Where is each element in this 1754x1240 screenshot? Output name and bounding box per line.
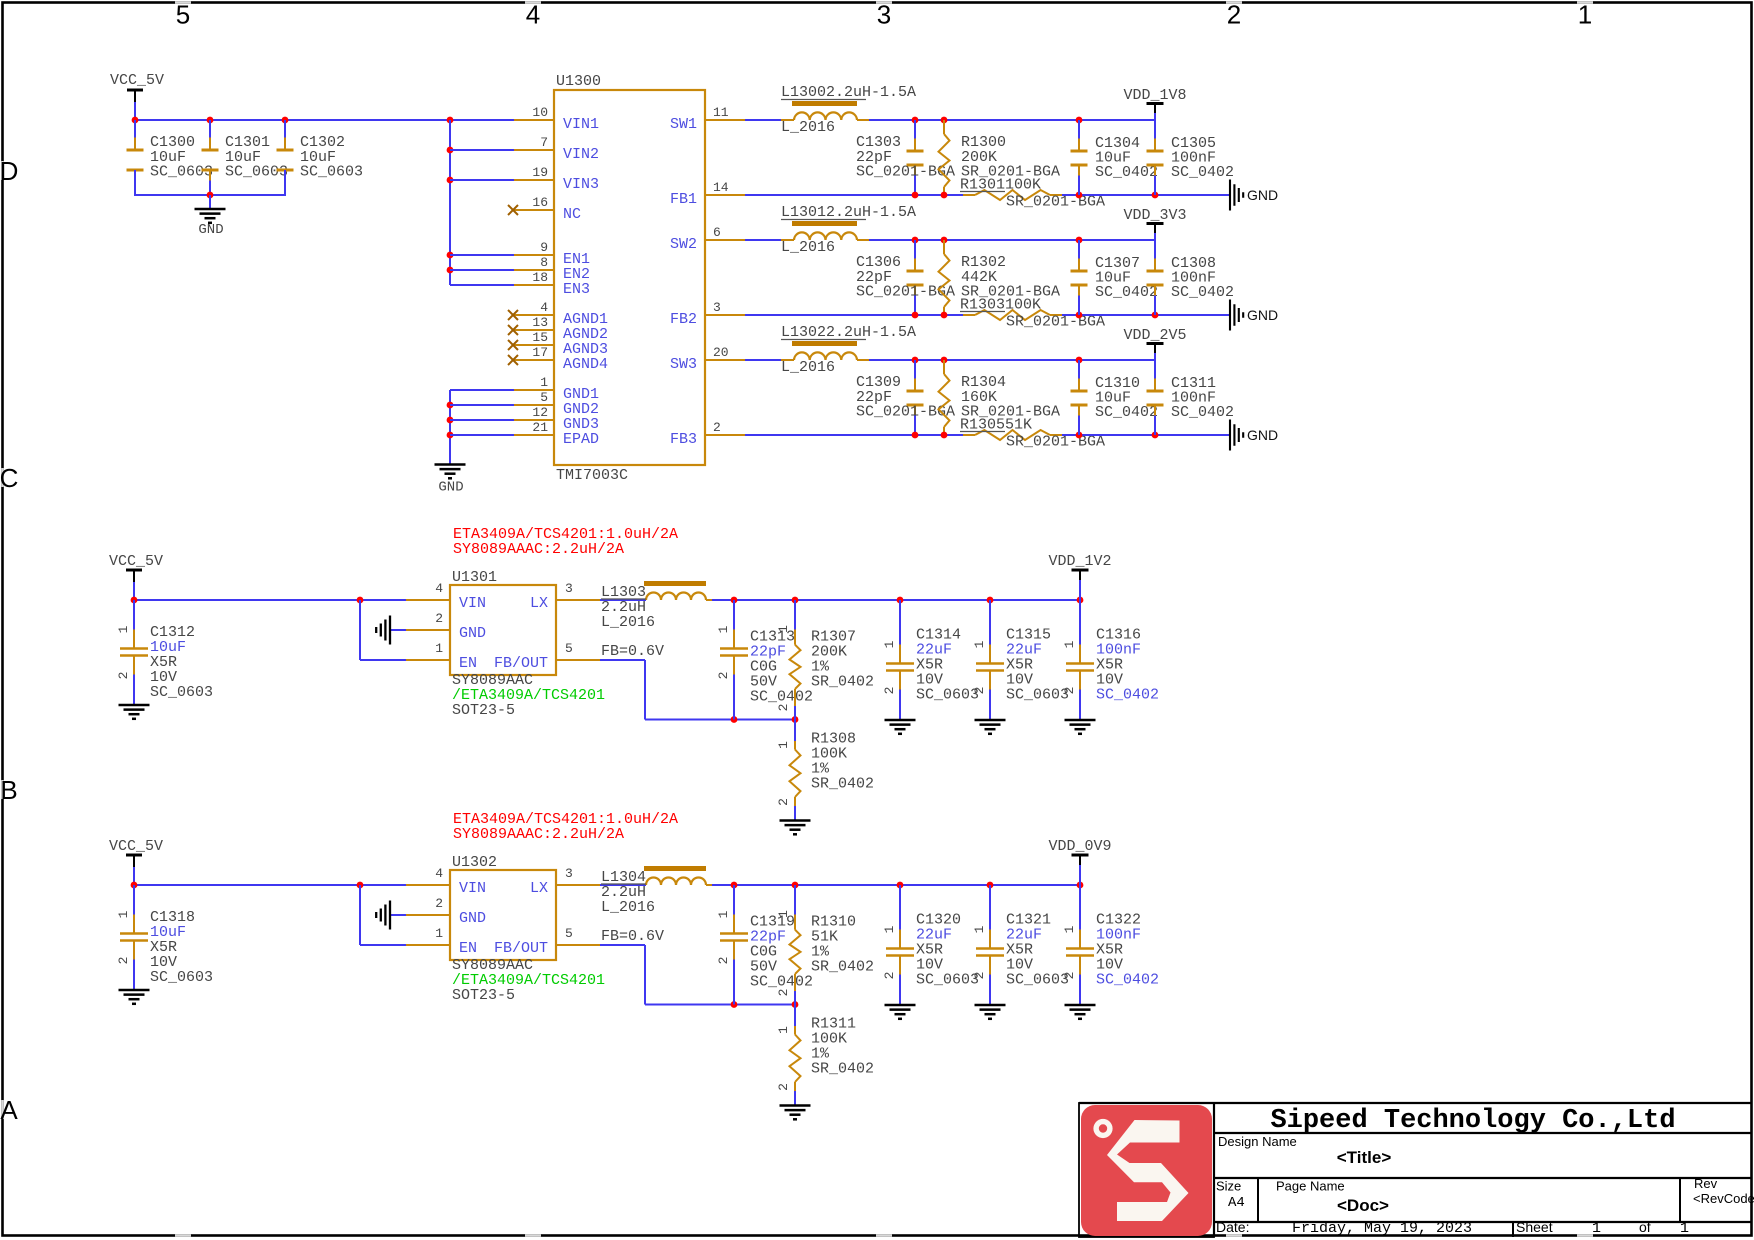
capacitor C1306 22pF SC_0201-BGA (914, 240, 916, 259)
pin 2 GND of U1302 (406, 914, 450, 916)
capacitor C1311 100nF SC_0402 (1154, 360, 1156, 379)
svg-text:VIN1: VIN1 (563, 116, 599, 133)
pin 17 AGND4 of U1300 (514, 359, 554, 361)
capacitor C1316 100nF X5R 10V SC_0402 (1079, 600, 1081, 645)
svg-text:3: 3 (565, 866, 573, 881)
wire VIN3 (450, 179, 514, 181)
node junction at C1302 (282, 117, 289, 124)
title block table lines (1213, 1103, 1215, 1237)
svg-text:SR_0402: SR_0402 (811, 776, 874, 793)
svg-text:VCC_5V: VCC_5V (109, 838, 163, 855)
resistor R1307 200K 1% SR_0402 (794, 600, 796, 630)
svg-text:<Title>: <Title> (1337, 1148, 1392, 1167)
wire EN branch (359, 600, 361, 660)
svg-text:FB1: FB1 (670, 191, 697, 208)
wire EPAD (450, 434, 514, 436)
svg-text:VDD_1V8: VDD_1V8 (1123, 87, 1186, 104)
inductor L1304 2.2uH L_2016 (600, 884, 646, 886)
svg-text:11: 11 (713, 105, 729, 120)
svg-text:SOT23-5: SOT23-5 (452, 702, 515, 719)
capacitor C1313 22pF C0G 50V SC_0402 (733, 600, 735, 630)
svg-text:A4: A4 (1228, 1195, 1245, 1211)
svg-text:2: 2 (435, 611, 443, 626)
pin 19 VIN3 of U1300 (514, 179, 554, 181)
capacitor C1320 22uF X5R 10V SC_0603 (899, 885, 901, 930)
svg-text:1: 1 (716, 625, 731, 633)
svg-text:SC_0402: SC_0402 (1095, 164, 1158, 181)
pin 9 EN1 of U1300 (514, 254, 554, 256)
svg-text:1: 1 (972, 640, 987, 648)
svg-text:VIN2: VIN2 (563, 146, 599, 163)
svg-text:FB/OUT: FB/OUT (494, 655, 548, 672)
wire SW output VDD_3V3 rail (869, 239, 1155, 241)
svg-text:2: 2 (776, 704, 791, 712)
svg-text:GND: GND (1247, 427, 1278, 443)
svg-text:1: 1 (1680, 1220, 1689, 1237)
svg-text:SC_0603: SC_0603 (916, 972, 979, 989)
Sipeed logo red tile (1081, 1105, 1212, 1236)
wire EN branch (359, 885, 361, 945)
svg-text:SC_0402: SC_0402 (750, 974, 813, 991)
inductor L1300 2.2uH-1.5A L_2016 (745, 119, 794, 121)
pin 3 LX of U1301 (556, 599, 600, 601)
wire FB feedback VDD_1V8 (745, 194, 963, 196)
Sipeed logo tag hole (1093, 1119, 1112, 1138)
svg-text:1: 1 (882, 925, 897, 933)
wire FB to ground rail (1062, 314, 1230, 316)
junction at C1318 (131, 882, 138, 889)
svg-text:SC_0603: SC_0603 (916, 687, 979, 704)
ground GND (C1316) (1065, 719, 1096, 722)
capacitor C1318 10uF X5R SC_0603 (133, 885, 135, 915)
title block top line (1079, 1102, 1752, 1104)
svg-text:1: 1 (776, 1026, 791, 1034)
svg-text:SY8089AAAC:2.2uH/2A: SY8089AAAC:2.2uH/2A (453, 541, 624, 558)
node junction at VIN bus (447, 117, 454, 124)
wire FB to ground rail (1062, 194, 1230, 196)
svg-text:VDD_3V3: VDD_3V3 (1123, 207, 1186, 224)
Sipeed logo S glyph (1107, 1120, 1189, 1221)
svg-text:SR_0201-BGA: SR_0201-BGA (1006, 194, 1105, 211)
node junction at C1301 (207, 117, 214, 124)
capacitor C1319 22pF C0G 50V SC_0402 (733, 885, 735, 915)
junction VIN3 (447, 177, 454, 184)
wire FB net (600, 944, 645, 946)
junction GND2 (447, 402, 454, 409)
capacitor C1307 10uF SC_0402 (1078, 240, 1080, 259)
capacitor C1310 10uF SC_0402 (1078, 360, 1080, 379)
svg-text:1: 1 (716, 910, 731, 918)
svg-text:L13022.2uH-1.5A: L13022.2uH-1.5A (781, 324, 916, 341)
svg-text:SC_0603: SC_0603 (1006, 687, 1069, 704)
svg-text:15: 15 (532, 330, 548, 345)
pin 15 AGND3 of U1300 (514, 344, 554, 346)
pin 5 GND2 of U1300 (514, 404, 554, 406)
ground GND (channel output) (1229, 420, 1231, 451)
capacitor C1322 100nF X5R 10V SC_0402 (1079, 885, 1081, 930)
svg-text:8: 8 (540, 255, 548, 270)
wire VIN bus vertical (449, 120, 451, 285)
junction at GND rail (207, 192, 214, 199)
capacitor C1321 22uF X5R 10V SC_0603 (989, 885, 991, 930)
wire FB feedback VDD_2V5 (745, 434, 963, 436)
pin 2 FB3 of U1300 (705, 434, 745, 436)
capacitor C1303 22pF SC_0201-BGA (914, 120, 916, 139)
wire LX output VDD_1V2 rail (712, 599, 1080, 601)
resistor R1311 100K 1% SR_0402 (794, 1005, 796, 1027)
svg-text:GND: GND (438, 480, 463, 496)
svg-text:LX: LX (530, 880, 548, 897)
svg-text:of: of (1639, 1219, 1651, 1235)
svg-text:1: 1 (1592, 1220, 1601, 1237)
ground GND (C1312) (119, 704, 150, 707)
svg-text:2: 2 (435, 896, 443, 911)
ground GND (channel output) (1229, 300, 1231, 331)
capacitor C1312 10uF X5R SC_0603 (133, 600, 135, 630)
svg-text:SOT23-5: SOT23-5 (452, 987, 515, 1004)
svg-text:Date:: Date: (1216, 1219, 1249, 1235)
svg-text:EN: EN (459, 655, 477, 672)
svg-text:5: 5 (540, 390, 548, 405)
svg-text:14: 14 (713, 180, 729, 195)
svg-text:L13012.2uH-1.5A: L13012.2uH-1.5A (781, 204, 916, 221)
svg-text:SC_0402: SC_0402 (1095, 404, 1158, 421)
capacitor C1300 10uF SC_0603 (134, 120, 136, 138)
svg-text:SC_0603: SC_0603 (150, 969, 213, 986)
svg-text:VDD_2V5: VDD_2V5 (1123, 327, 1186, 344)
svg-text:SW2: SW2 (670, 236, 697, 253)
wire GND3 (450, 419, 514, 421)
pin 4 VIN of U1302 (406, 884, 450, 886)
svg-text:LX: LX (530, 595, 548, 612)
svg-text:GND: GND (459, 910, 486, 927)
resistor R1302 442K SR_0201-BGA (943, 240, 945, 254)
svg-text:SC_0402: SC_0402 (750, 689, 813, 706)
svg-text:4: 4 (540, 300, 548, 315)
svg-text:3: 3 (565, 581, 573, 596)
svg-text:FB=0.6V: FB=0.6V (601, 643, 664, 660)
pin 8 EN2 of U1300 (514, 269, 554, 271)
pin 1 GND1 of U1300 (514, 389, 554, 391)
svg-text:SR_0201-BGA: SR_0201-BGA (1006, 434, 1105, 451)
svg-text:<Doc>: <Doc> (1337, 1196, 1389, 1215)
svg-text:L13002.2uH-1.5A: L13002.2uH-1.5A (781, 84, 916, 101)
svg-text:5: 5 (565, 641, 573, 656)
svg-text:L_2016: L_2016 (601, 899, 655, 916)
svg-text:2: 2 (713, 420, 721, 435)
svg-text:L_2016: L_2016 (601, 614, 655, 631)
svg-text:2: 2 (716, 957, 731, 965)
svg-text:2: 2 (1062, 687, 1077, 695)
svg-text:C: C (0, 463, 18, 493)
svg-text:EN: EN (459, 940, 477, 957)
junction VIN2 (447, 147, 454, 154)
svg-text:L_2016: L_2016 (781, 359, 835, 376)
svg-text:6: 6 (713, 225, 721, 240)
svg-text:1: 1 (1062, 640, 1077, 648)
pin 13 AGND2 of U1300 (514, 329, 554, 331)
svg-text:Size: Size (1216, 1179, 1241, 1194)
ground GND (C1318) (119, 989, 150, 992)
svg-text:1: 1 (435, 641, 443, 656)
junction VIN/EN branch (357, 597, 364, 604)
svg-text:1: 1 (540, 375, 548, 390)
wire ground rail under C1300-C1302 (135, 194, 285, 196)
svg-text:SC_0402: SC_0402 (1096, 972, 1159, 989)
svg-text:19: 19 (532, 165, 548, 180)
capacitor C1305 100nF SC_0402 (1154, 120, 1156, 139)
svg-text:SC_0603: SC_0603 (300, 164, 363, 181)
ground tap at GND pin of U1302 (390, 914, 406, 916)
resistor R1300 200K SR_0201-BGA (943, 120, 945, 134)
wire VCC_5V to VIN (134, 599, 406, 601)
resistor R1304 160K SR_0201-BGA (943, 360, 945, 374)
pin 2 GND of U1301 (406, 629, 450, 631)
svg-text:U1301: U1301 (452, 569, 497, 586)
svg-text:2: 2 (776, 798, 791, 806)
svg-text:U1300: U1300 (556, 73, 601, 90)
wire VCC_5V to VIN (134, 884, 406, 886)
svg-text:VCC_5V: VCC_5V (110, 72, 164, 89)
svg-text:SR_0201-BGA: SR_0201-BGA (1006, 314, 1105, 331)
capacitor C1308 100nF SC_0402 (1154, 240, 1156, 259)
svg-text:U1302: U1302 (452, 854, 497, 871)
pin 5 FB/OUT of U1301 (556, 659, 600, 661)
svg-text:GND: GND (1247, 307, 1278, 323)
inductor L1301 2.2uH-1.5A L_2016 (745, 239, 794, 241)
svg-text:VCC_5V: VCC_5V (109, 553, 163, 570)
pin 12 GND3 of U1300 (514, 419, 554, 421)
svg-text:SC_0603: SC_0603 (225, 164, 288, 181)
pin 4 AGND1 of U1300 (514, 314, 554, 316)
svg-text:1: 1 (882, 640, 897, 648)
svg-text:SW3: SW3 (670, 356, 697, 373)
svg-text:2: 2 (776, 989, 791, 997)
ground GND (R1311) (780, 1104, 811, 1107)
svg-text:FB2: FB2 (670, 311, 697, 328)
ground GND (U1300) (435, 463, 466, 466)
svg-text:<RevCode: <RevCode (1693, 1191, 1754, 1206)
capacitor C1304 10uF SC_0402 (1078, 120, 1080, 139)
svg-text:2: 2 (1227, 0, 1241, 30)
inductor L1303 2.2uH L_2016 (600, 599, 646, 601)
capacitor C1315 22uF X5R 10V SC_0603 (989, 600, 991, 645)
svg-text:1: 1 (776, 910, 791, 918)
svg-text:20: 20 (713, 345, 729, 360)
op-amp U1302 SY8089AAC body (450, 870, 556, 960)
ground GND (R1308) (780, 819, 811, 822)
resistor R1303100K SR_0201-BGA (feedback divider) (963, 314, 975, 316)
wire SW output VDD_1V8 rail (869, 119, 1155, 121)
svg-text:FB/OUT: FB/OUT (494, 940, 548, 957)
svg-text:SC_0402: SC_0402 (1095, 284, 1158, 301)
svg-text:21: 21 (532, 420, 548, 435)
svg-text:2: 2 (116, 957, 131, 965)
svg-text:4: 4 (526, 0, 540, 30)
svg-text:FB=0.6V: FB=0.6V (601, 928, 664, 945)
resistor R1308 100K 1% SR_0402 (794, 720, 796, 742)
ground tap at GND pin of U1301 (390, 629, 406, 631)
svg-text:3: 3 (877, 0, 891, 30)
svg-text:2: 2 (116, 672, 131, 680)
svg-text:Rev: Rev (1694, 1176, 1718, 1191)
svg-text:17: 17 (532, 345, 548, 360)
wire EN2 (450, 269, 514, 271)
node junction at C1300 (132, 117, 139, 124)
pin 21 EPAD of U1300 (514, 434, 554, 436)
svg-text:4: 4 (435, 581, 443, 596)
svg-text:4: 4 (435, 866, 443, 881)
svg-text:VDD_0V9: VDD_0V9 (1048, 838, 1111, 855)
svg-text:SC_0603: SC_0603 (1006, 972, 1069, 989)
wire LX output VDD_0V9 rail (712, 884, 1080, 886)
resistor R130551K SR_0201-BGA (feedback divider) (963, 434, 975, 436)
svg-text:SC_0402: SC_0402 (1171, 164, 1234, 181)
svg-text:SR_0402: SR_0402 (811, 959, 874, 976)
capacitor C1301 10uF SC_0603 (209, 120, 211, 138)
svg-text:1: 1 (116, 910, 131, 918)
junction GND3 (447, 417, 454, 424)
capacitor C1309 22pF SC_0201-BGA (914, 360, 916, 379)
svg-text:7: 7 (540, 135, 548, 150)
svg-text:VIN: VIN (459, 595, 486, 612)
wire VIN2 (450, 149, 514, 151)
svg-text:Page Name: Page Name (1276, 1179, 1345, 1194)
svg-text:1: 1 (116, 625, 131, 633)
junction EPAD (447, 432, 454, 439)
svg-text:2: 2 (882, 687, 897, 695)
inductor L1302 2.2uH-1.5A L_2016 (745, 359, 794, 361)
capacitor C1314 22uF X5R 10V SC_0603 (899, 600, 901, 645)
svg-text:VDD_1V2: VDD_1V2 (1048, 553, 1111, 570)
svg-text:VIN3: VIN3 (563, 176, 599, 193)
svg-text:Sipeed Technology Co.,Ltd: Sipeed Technology Co.,Ltd (1270, 1106, 1675, 1136)
pin 5 FB/OUT of U1302 (556, 944, 600, 946)
svg-text:2: 2 (972, 972, 987, 980)
pin 1 EN of U1302 (406, 944, 450, 946)
ground GND (C1315) (975, 719, 1006, 722)
svg-text:10: 10 (532, 105, 548, 120)
svg-text:GND: GND (198, 222, 223, 238)
svg-text:Sheet: Sheet (1516, 1219, 1553, 1235)
svg-text:5: 5 (565, 926, 573, 941)
svg-text:SC_0603: SC_0603 (150, 684, 213, 701)
svg-text:SC_0603: SC_0603 (150, 164, 213, 181)
svg-text:1: 1 (435, 926, 443, 941)
svg-text:B: B (0, 775, 17, 805)
wire SW output VDD_2V5 rail (869, 359, 1155, 361)
ground GND (C1314) (885, 719, 916, 722)
junction VIN/EN branch (357, 882, 364, 889)
svg-text:NC: NC (563, 206, 581, 223)
svg-text:SW1: SW1 (670, 116, 697, 133)
svg-text:EPAD: EPAD (563, 431, 599, 448)
pin 14 FB1 of U1300 (705, 194, 745, 196)
junction EN1 (447, 252, 454, 259)
svg-text:12: 12 (532, 405, 548, 420)
svg-text:1: 1 (1062, 925, 1077, 933)
ground GND (C1322) (1065, 1004, 1096, 1007)
svg-text:TMI7003C: TMI7003C (556, 467, 628, 484)
svg-text:A: A (0, 1095, 18, 1125)
svg-text:2: 2 (776, 1083, 791, 1091)
svg-text:1: 1 (776, 625, 791, 633)
svg-text:Friday, May 19, 2023: Friday, May 19, 2023 (1292, 1220, 1472, 1237)
svg-text:SC_0402: SC_0402 (1171, 284, 1234, 301)
svg-text:Design Name: Design Name (1218, 1134, 1297, 1149)
svg-text:SR_0402: SR_0402 (811, 1061, 874, 1078)
svg-text:16: 16 (532, 195, 548, 210)
svg-text:2: 2 (882, 972, 897, 980)
svg-text:2: 2 (972, 687, 987, 695)
svg-text:3: 3 (713, 300, 721, 315)
capacitor C1302 10uF SC_0603 (284, 120, 286, 138)
wire FB net (600, 659, 645, 661)
pin 16 NC of U1300 (514, 209, 554, 211)
svg-text:2: 2 (1062, 972, 1077, 980)
pin 7 VIN2 of U1300 (514, 149, 554, 151)
svg-text:18: 18 (532, 270, 548, 285)
svg-text:SC_0402: SC_0402 (1096, 687, 1159, 704)
pin 1 EN of U1301 (406, 659, 450, 661)
junction EN2 (447, 267, 454, 274)
pin 18 EN3 of U1300 (514, 284, 554, 286)
pin 4 VIN of U1301 (406, 599, 450, 601)
svg-text:VIN: VIN (459, 880, 486, 897)
pin 3 LX of U1302 (556, 884, 600, 886)
svg-text:1: 1 (972, 925, 987, 933)
svg-text:2: 2 (716, 672, 731, 680)
svg-text:FB3: FB3 (670, 431, 697, 448)
svg-text:EN3: EN3 (563, 281, 590, 298)
wire EN1 (450, 254, 514, 256)
svg-text:SR_0402: SR_0402 (811, 674, 874, 691)
resistor R1301100K SR_0201-BGA (feedback divider) (963, 194, 975, 196)
pin 11 SW1 of U1300 (705, 119, 745, 121)
svg-text:13: 13 (532, 315, 548, 330)
wire FB feedback VDD_3V3 (745, 314, 963, 316)
svg-text:5: 5 (176, 0, 190, 30)
ground GND (channel output) (1229, 180, 1231, 211)
svg-text:1: 1 (1578, 0, 1592, 30)
svg-text:SY8089AAAC:2.2uH/2A: SY8089AAAC:2.2uH/2A (453, 826, 624, 843)
resistor R1310 51K 1% SR_0402 (794, 885, 796, 915)
svg-text:L_2016: L_2016 (781, 119, 835, 136)
op-amp U1301 SY8089AAC body (450, 585, 556, 675)
pin 3 FB2 of U1300 (705, 314, 745, 316)
svg-text:L_2016: L_2016 (781, 239, 835, 256)
ground GND (input caps) (209, 195, 211, 209)
svg-text:9: 9 (540, 240, 548, 255)
svg-text:SC_0402: SC_0402 (1171, 404, 1234, 421)
wire GND2 (450, 404, 514, 406)
wire GND1 (450, 389, 514, 391)
junction at C1312 (131, 597, 138, 604)
wire GND bus vertical (449, 390, 451, 465)
pin 20 SW3 of U1300 (705, 359, 745, 361)
svg-text:GND: GND (459, 625, 486, 642)
svg-text:AGND4: AGND4 (563, 356, 608, 373)
wire VCC_5V rail to VIN1 (135, 119, 514, 121)
svg-text:1: 1 (776, 741, 791, 749)
svg-text:D: D (0, 156, 18, 186)
svg-text:GND: GND (1247, 187, 1278, 203)
logo box border (1079, 1103, 1214, 1237)
wire EN3 (450, 284, 514, 286)
pin 10 VIN1 of U1300 (514, 119, 554, 121)
wire FB to ground rail (1062, 434, 1230, 436)
pin 6 SW2 of U1300 (705, 239, 745, 241)
